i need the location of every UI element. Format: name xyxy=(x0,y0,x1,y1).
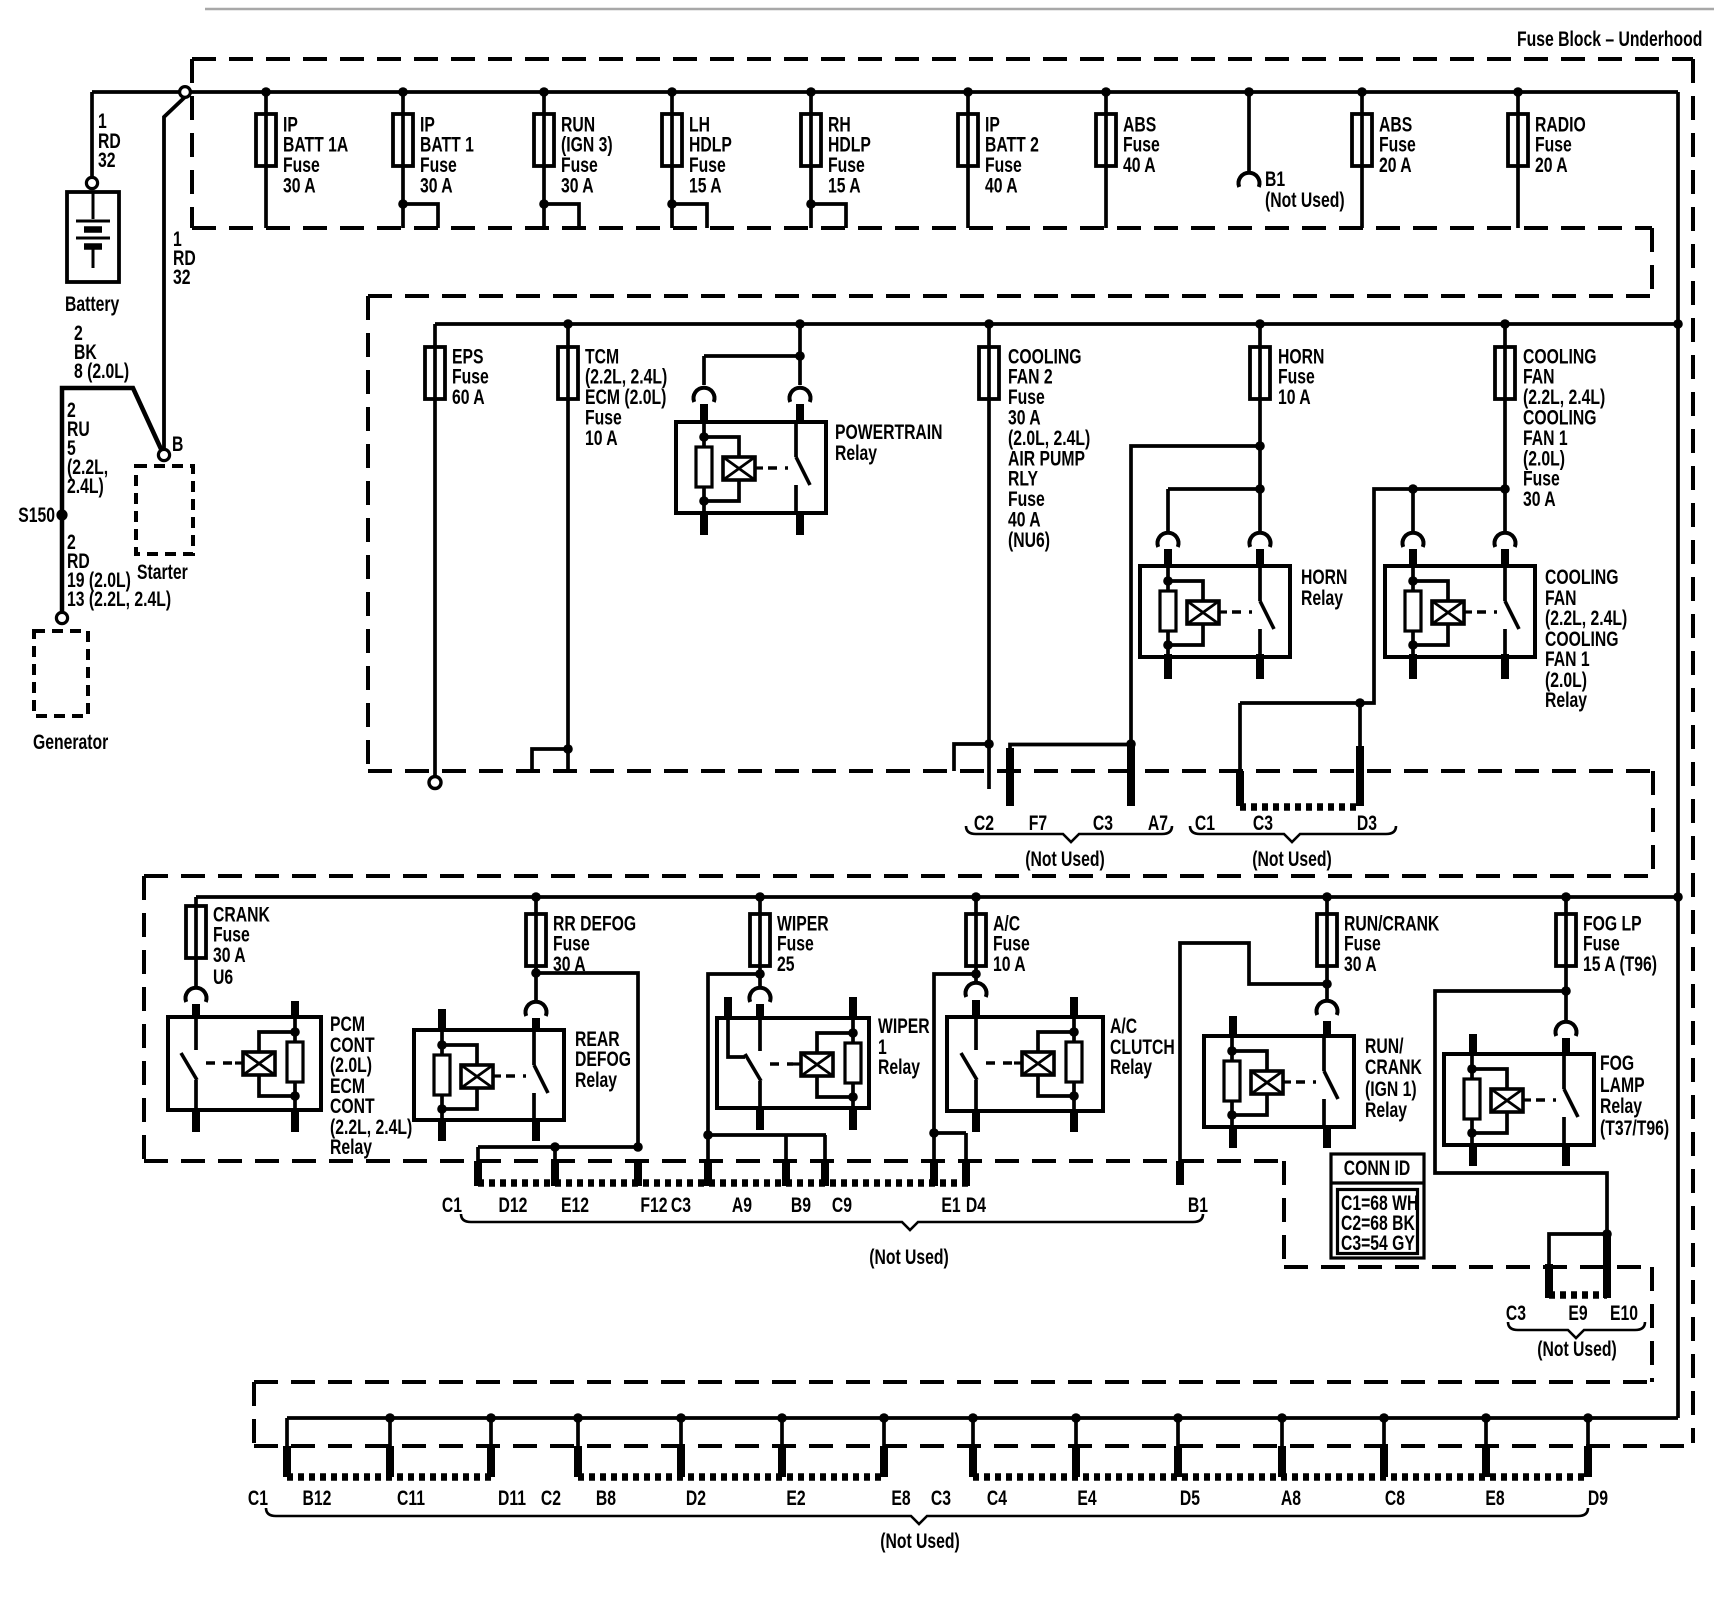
bottom terminal stub 9 xyxy=(1074,1418,1078,1448)
fuse A/C 10 A wire xyxy=(974,897,978,981)
rear defog relay mechanical link (dashed) xyxy=(506,1074,526,1078)
powertrain relay coil branch wire xyxy=(704,356,800,385)
fuse IP BATT 2 40 A xyxy=(958,114,978,166)
fuse IP BATT 1 30 A xyxy=(393,114,413,166)
horn relay coil pin connector arc xyxy=(1158,533,1179,547)
fuse EPS 60 A wire xyxy=(433,324,437,776)
starter B terminal circle xyxy=(158,449,169,460)
cooling fan relay coil xyxy=(1432,601,1464,624)
fog lp fuse output wire to terminals E9/E10 xyxy=(1435,991,1607,1234)
svg-text:C3=54 GY: C3=54 GY xyxy=(1341,1231,1415,1255)
brace for C2 F7 C3 A7 group xyxy=(966,826,1172,842)
cooling fan relay coil/resistor top junction xyxy=(1408,576,1418,586)
horn relay coil/resistor bottom junction xyxy=(1163,640,1173,650)
fuse block dashed border: box2 left edge xyxy=(366,296,370,771)
fuse HORN 10 A wire xyxy=(1258,324,1262,532)
svg-text:Relay: Relay xyxy=(330,1135,373,1159)
fuse COOLING FAN 2 second terminal stub xyxy=(954,744,989,771)
svg-text:60 A: 60 A xyxy=(452,385,485,409)
not used dotted strip E9-E10 xyxy=(1549,1291,1607,1299)
terminal C3 stub (cooling fan group) xyxy=(1238,703,1242,771)
terminal A7 stub xyxy=(1127,746,1135,806)
fog lamp relay resistor lower wire xyxy=(1470,1119,1474,1145)
bottom terminal stub 6 xyxy=(780,1418,784,1448)
fuse block dashed border: box3 top edge xyxy=(144,874,1653,878)
fuse FOG LP 15 A wire xyxy=(1564,897,1568,1020)
run/crank fuse output wire to terminal B1 xyxy=(1180,943,1327,1162)
cooling fan relay pins xyxy=(1409,549,1417,568)
fuse ABS 40 A wire xyxy=(1104,92,1108,228)
svg-text:D3: D3 xyxy=(1357,811,1377,835)
fuse block dashed border: box1 left edge xyxy=(190,59,194,228)
svg-text:30 A: 30 A xyxy=(1523,487,1556,511)
bottom terminal stub 4 xyxy=(576,1418,580,1448)
fuse block dashed border: outer right edge xyxy=(1691,59,1695,1443)
fuse block dashed border: box2 top edge xyxy=(368,294,1652,298)
fuse ABS 20 A xyxy=(1352,114,1372,166)
bottom terminal stub 7 xyxy=(882,1418,886,1448)
svg-text:B8: B8 xyxy=(596,1486,616,1510)
svg-text:10 A: 10 A xyxy=(993,952,1026,976)
fog lamp relay mechanical link (dashed) xyxy=(1536,1098,1556,1102)
fuse COOLING FAN 2 / AIR PUMP RLY 30A/40A xyxy=(979,347,999,399)
run/crank relay switch xyxy=(1322,1038,1326,1071)
svg-text:C1: C1 xyxy=(442,1193,462,1217)
fuse RUN (IGN 3) second terminal stub xyxy=(544,204,579,228)
svg-text:E12: E12 xyxy=(561,1193,589,1217)
cooling fan relay coil pin wire xyxy=(1411,568,1415,591)
fog lamp relay coil/resistor top junction xyxy=(1467,1064,1477,1074)
horn relay coil pin wire xyxy=(1166,568,1170,591)
svg-text:CRANK: CRANK xyxy=(1365,1055,1422,1079)
bottom terminal stub 5 xyxy=(679,1418,683,1448)
powertrain relay coil pin connector arc xyxy=(694,388,715,402)
fuse COOLING FAN 2 / AIR PUMP RLY wire xyxy=(987,324,991,789)
cooling fan relay coil/resistor bottom junction xyxy=(1408,640,1418,650)
rear defog relay switch xyxy=(532,1032,536,1065)
svg-text:C8: C8 xyxy=(1385,1486,1405,1510)
brace for section 3 terminal group xyxy=(461,1214,1203,1230)
fog lamp relay coil parallel wiring xyxy=(1472,1069,1507,1089)
svg-text:C1: C1 xyxy=(248,1486,268,1510)
svg-text:40 A: 40 A xyxy=(1123,153,1156,177)
fuse HORN 10 A xyxy=(1250,347,1270,399)
svg-text:Battery: Battery xyxy=(65,292,120,316)
svg-text:D2: D2 xyxy=(686,1486,706,1510)
run/crank relay coil/resistor bottom junction xyxy=(1227,1110,1237,1120)
svg-text:10 A: 10 A xyxy=(585,426,618,450)
svg-text:C3: C3 xyxy=(1253,811,1273,835)
bus wire: battery feed to underhood fuses xyxy=(92,90,1678,94)
fuse block dashed border: box2-box3 right step xyxy=(1651,771,1655,876)
fuse TCM/ECM 10 A xyxy=(558,347,578,399)
fog lamp relay coil/resistor bottom junction xyxy=(1467,1128,1477,1138)
not used dotted strip D12-D4 xyxy=(478,1179,968,1187)
pcm cont relay resistor xyxy=(293,1019,297,1042)
cooling fan relay mechanical link (dashed) xyxy=(1477,610,1497,614)
relay REAR DEFOG xyxy=(414,1030,564,1120)
bottom terminal stub 1 xyxy=(285,1418,289,1448)
a/c clutch relay coil/resistor junctions xyxy=(1069,1027,1079,1037)
cooling fan relay resistor xyxy=(1405,591,1421,631)
fuse RADIO 20 A wire xyxy=(1516,92,1520,228)
a/c clutch relay switch pin connector arc xyxy=(965,983,986,997)
fuse RUN/CRANK 30 A wire xyxy=(1325,897,1329,999)
rear defog relay resistor lower wire xyxy=(440,1095,444,1120)
svg-text:10 A: 10 A xyxy=(1278,385,1311,409)
fuse TCM second terminal stub xyxy=(532,749,568,771)
svg-text:B1: B1 xyxy=(1188,1193,1208,1217)
svg-text:C3: C3 xyxy=(1093,811,1113,835)
terminal B9 stub xyxy=(784,1135,788,1162)
terminal F7 stub xyxy=(1010,745,1131,757)
powertrain relay switch xyxy=(794,424,798,457)
fuse RADIO 20 A xyxy=(1508,114,1528,166)
svg-text:B12: B12 xyxy=(303,1486,332,1510)
svg-text:(Not Used): (Not Used) xyxy=(1025,847,1105,871)
powertrain relay resistor xyxy=(696,447,712,487)
cooling fan relay switch xyxy=(1503,568,1507,601)
fuse IP BATT 2 40 A wire xyxy=(966,92,970,228)
svg-text:Relay: Relay xyxy=(1365,1098,1408,1122)
run/crank relay coil xyxy=(1251,1071,1283,1094)
a/c clutch relay coil parallel wiring xyxy=(1038,1032,1074,1052)
pcm cont relay coil parallel wiring xyxy=(259,1032,295,1052)
svg-text:13 (2.2L, 2.4L): 13 (2.2L, 2.4L) xyxy=(67,587,171,611)
svg-text:(T37/T96): (T37/T96) xyxy=(1600,1116,1669,1140)
wiper relay switch pin connector arc xyxy=(750,988,771,1002)
horn relay mechanical link (dashed) xyxy=(1232,610,1252,614)
fuse IP BATT 1 second terminal stub xyxy=(403,204,438,228)
rear defog relay coil pin wire xyxy=(440,1032,444,1055)
bus wire: section 3 feed xyxy=(196,895,1678,899)
relay RUN/CRANK (IGN 1) xyxy=(1204,1036,1354,1127)
wiper relay switch feed from stub pin xyxy=(728,1020,745,1057)
svg-text:15 A (T96): 15 A (T96) xyxy=(1583,952,1657,976)
svg-text:F7: F7 xyxy=(1029,811,1047,835)
bottom terminal stub 10 xyxy=(1176,1418,1180,1448)
fuse FOG LP 15 A xyxy=(1556,914,1576,966)
svg-text:E2: E2 xyxy=(786,1486,805,1510)
svg-text:C4: C4 xyxy=(987,1486,1008,1510)
rr defog fuse output wire to terminals xyxy=(478,973,638,1147)
cooling fan relay coil parallel wiring xyxy=(1413,581,1448,601)
svg-text:30 A: 30 A xyxy=(283,173,316,197)
svg-text:C9: C9 xyxy=(832,1193,852,1217)
svg-text:A7: A7 xyxy=(1148,811,1168,835)
horn relay switch xyxy=(1258,568,1262,601)
not used dotted strip C3-D3 xyxy=(1240,803,1360,811)
pcm relay switch pin connector arc xyxy=(186,988,207,1002)
svg-text:D12: D12 xyxy=(499,1193,528,1217)
svg-text:D5: D5 xyxy=(1180,1486,1200,1510)
terminal F12 stub xyxy=(634,1161,642,1186)
generator terminal circle xyxy=(56,612,67,623)
svg-text:E9: E9 xyxy=(1568,1301,1587,1325)
run/crank relay pins xyxy=(1229,1016,1237,1038)
not used dotted strip (bottom middle group) xyxy=(578,1473,884,1481)
svg-text:D9: D9 xyxy=(1588,1486,1608,1510)
horn relay resistor lower wire xyxy=(1166,631,1170,657)
fuse A/C 10 A xyxy=(966,914,986,966)
svg-text:2.4L): 2.4L) xyxy=(67,474,104,498)
powertrain relay feed wire from bus xyxy=(798,324,802,385)
svg-text:Fuse Block – Underhood: Fuse Block – Underhood xyxy=(1517,27,1702,51)
fuse LH HDLP 15 A wire xyxy=(670,92,674,228)
fuse RUN (IGN 3) 30 A xyxy=(534,114,554,166)
svg-text:(NU6): (NU6) xyxy=(1008,528,1050,552)
cooling fan relay coil branch wire xyxy=(1240,489,1505,703)
brace for E9 E10 group xyxy=(1508,1322,1645,1338)
a/c clutch relay coil xyxy=(1014,1061,1022,1064)
starter (dashed box) xyxy=(136,466,193,554)
generator (dashed box) xyxy=(34,631,88,716)
rear defog relay resistor xyxy=(434,1055,450,1095)
svg-text:40 A: 40 A xyxy=(985,173,1018,197)
svg-text:32: 32 xyxy=(173,265,191,289)
svg-text:A9: A9 xyxy=(732,1193,752,1217)
relay FOG LAMP xyxy=(1444,1054,1594,1145)
svg-text:32: 32 xyxy=(98,148,116,172)
svg-text:C3: C3 xyxy=(671,1193,691,1217)
cooling fan relay coil pin connector arc xyxy=(1403,533,1424,547)
svg-text:Relay: Relay xyxy=(1545,688,1588,712)
svg-text:E1: E1 xyxy=(941,1193,960,1217)
fuse WIPER 25 wire xyxy=(758,897,762,986)
fuse RH HDLP 15 A wire xyxy=(809,92,813,228)
svg-text:30 A: 30 A xyxy=(561,173,594,197)
terminal circle below EPS wire xyxy=(429,777,441,789)
horn relay resistor xyxy=(1160,591,1176,631)
wiper fuse output wire to terminals xyxy=(708,974,826,1135)
not used dotted strip (bottom right group) xyxy=(973,1473,1588,1481)
horn relay switch pin connector arc xyxy=(1250,533,1271,547)
svg-text:D4: D4 xyxy=(966,1193,987,1217)
powertrain relay mechanical link (dashed) xyxy=(768,466,788,470)
terminal B1 stub xyxy=(1176,1161,1184,1185)
svg-text:C11: C11 xyxy=(397,1486,425,1510)
wiper 1 relay switch xyxy=(758,1020,762,1051)
fog lamp relay resistor xyxy=(1464,1079,1480,1119)
horn relay coil xyxy=(1187,601,1219,624)
bus wire: bottom terminal strip xyxy=(287,1416,1678,1420)
bottom terminal stub 2 xyxy=(388,1418,392,1448)
air pump rly feed wire to terminals F7/A7 xyxy=(1131,446,1260,744)
scan artifact line at top xyxy=(205,8,1714,11)
rear defog relay pins xyxy=(438,1009,446,1032)
battery xyxy=(67,192,119,282)
CONN ID box xyxy=(1331,1154,1424,1258)
run/crank relay coil pin wire xyxy=(1230,1038,1234,1061)
bottom terminal stub 11 xyxy=(1280,1418,1284,1448)
wiper 1 relay coil xyxy=(793,1062,801,1065)
svg-text:C3: C3 xyxy=(931,1486,951,1510)
svg-text:Relay: Relay xyxy=(1301,586,1344,610)
svg-text:30 A: 30 A xyxy=(420,173,453,197)
rear defog relay coil/resistor top junction xyxy=(437,1040,447,1050)
run/crank relay mechanical link (dashed) xyxy=(1296,1080,1316,1084)
run/crank relay resistor xyxy=(1224,1061,1240,1101)
svg-text:U6: U6 xyxy=(213,965,233,989)
rear defog relay coil parallel wiring xyxy=(442,1045,477,1065)
fuse block dashed border: box1 bottom edge xyxy=(192,226,1652,230)
run/crank relay coil/resistor top junction xyxy=(1227,1046,1237,1056)
svg-text:Relay: Relay xyxy=(1600,1094,1643,1118)
relay WIPER 1 xyxy=(717,1018,869,1108)
terminal B1 connector arc xyxy=(1239,173,1260,187)
terminal A9 stub xyxy=(706,1135,710,1162)
fuse IP BATT 1A 30 A xyxy=(256,114,276,166)
svg-text:C1: C1 xyxy=(1195,811,1215,835)
bottom terminal stub 3 xyxy=(489,1418,493,1448)
fuse block dashed border: box1 top edge xyxy=(192,57,1693,61)
fog lamp relay pins xyxy=(1469,1034,1477,1056)
svg-text:20 A: 20 A xyxy=(1379,153,1412,177)
svg-text:(Not Used): (Not Used) xyxy=(1537,1337,1617,1361)
bottom terminal stub 14 xyxy=(1586,1418,1590,1448)
terminal B1 stub wire xyxy=(1247,92,1251,171)
bottom terminal stub 13 xyxy=(1484,1418,1488,1448)
svg-text:25: 25 xyxy=(777,952,795,976)
fuse LH HDLP 15 A xyxy=(662,114,682,166)
svg-text:A8: A8 xyxy=(1281,1486,1301,1510)
svg-text:(Not Used): (Not Used) xyxy=(880,1529,960,1553)
powertrain relay coil/resistor top junction xyxy=(699,432,709,442)
fog lamp relay coil xyxy=(1491,1089,1523,1112)
pcm relay pins xyxy=(192,1004,200,1019)
terminal E9 stub xyxy=(1549,1234,1607,1266)
relay A/C CLUTCH xyxy=(947,1017,1103,1111)
horn relay pins xyxy=(1164,549,1172,568)
fuse block dashed border: box2 bottom edge xyxy=(368,769,1653,773)
a/c fuse output wire to terminals xyxy=(934,974,976,1133)
a/c clutch relay resistor xyxy=(1072,1019,1076,1042)
svg-text:30 A: 30 A xyxy=(213,943,246,967)
svg-text:(Not Used): (Not Used) xyxy=(869,1245,949,1269)
fog lamp relay coil pin wire xyxy=(1470,1056,1474,1079)
terminal D12 stub xyxy=(476,1147,480,1162)
horn relay coil/resistor top junction xyxy=(1163,576,1173,586)
svg-text:(Not Used): (Not Used) xyxy=(1265,188,1345,212)
bottom terminal stub 12 xyxy=(1382,1418,1386,1448)
powertrain relay coil parallel wiring xyxy=(704,437,739,457)
svg-text:E8: E8 xyxy=(1485,1486,1504,1510)
pcm cont relay switch xyxy=(194,1019,198,1050)
fuse block dashed border: box3 left edge xyxy=(142,876,146,1161)
fuse block dashed border: bottom box through line xyxy=(254,1444,1693,1448)
fuse block dashed border: step to bottom box xyxy=(1650,1267,1654,1382)
a/c clutch relay switch xyxy=(974,1019,978,1050)
fog lamp relay switch pin connector arc xyxy=(1556,1022,1577,1036)
fuse WIPER 25 xyxy=(750,914,770,966)
fuse block dashed border: bottom box top edge xyxy=(254,1380,1652,1384)
fuse CRANK 30 A xyxy=(186,906,206,958)
run/crank relay resistor lower wire xyxy=(1230,1101,1234,1127)
brace for bottom terminal group xyxy=(266,1508,1588,1524)
fuse COOLING FAN 30 A xyxy=(1495,347,1515,399)
svg-text:F12: F12 xyxy=(640,1193,667,1217)
terminal D4 stub xyxy=(964,1133,968,1162)
svg-text:B: B xyxy=(172,432,183,456)
bus wire: section 2 feed xyxy=(435,322,1678,326)
svg-text:FOG: FOG xyxy=(1600,1051,1634,1075)
svg-text:E4: E4 xyxy=(1077,1486,1097,1510)
fuse IP BATT 1A 30 A wire xyxy=(264,92,268,228)
a/c clutch relay mechanical link (dashed) xyxy=(986,1061,1014,1065)
fuse LH HDLP second terminal stub xyxy=(672,204,707,228)
svg-text:15 A: 15 A xyxy=(828,173,861,197)
fuse block dashed border: box1-box2 right step xyxy=(1650,228,1654,296)
bus junction circle (battery tap) xyxy=(180,87,191,98)
svg-text:8 (2.0L): 8 (2.0L) xyxy=(74,359,129,383)
wire 1 RD 32 from bus junction to starter B terminal xyxy=(164,97,185,449)
svg-text:20 A: 20 A xyxy=(1535,153,1568,177)
fuse block dashed border: box3 lower bottom edge xyxy=(1284,1265,1652,1269)
wiper 1 relay coil/resistor junctions xyxy=(848,1028,858,1038)
svg-text:Generator: Generator xyxy=(33,730,108,754)
svg-text:(Not Used): (Not Used) xyxy=(1252,847,1332,871)
fuse block dashed border: box3 bottom step down xyxy=(1282,1161,1286,1267)
fuse ABS 20 A wire xyxy=(1360,92,1364,228)
wire generator to B junction xyxy=(62,388,161,612)
fuse block dashed border: box3 bottom edge xyxy=(144,1159,1284,1163)
terminal E10 stub xyxy=(1603,1234,1611,1298)
fuse RUN/CRANK 30 A xyxy=(1317,914,1337,966)
main right feed wire xyxy=(1676,92,1680,1418)
fuse EPS 60 A xyxy=(425,347,445,399)
horn relay coil parallel wiring xyxy=(1168,581,1203,601)
svg-text:Relay: Relay xyxy=(878,1055,921,1079)
fuse RH HDLP 15 A xyxy=(801,114,821,166)
fuse RR DEFOG 30 A wire xyxy=(534,897,538,1001)
wiper 1 relay resistor xyxy=(851,1020,855,1043)
svg-text:E8: E8 xyxy=(891,1486,910,1510)
svg-text:Starter: Starter xyxy=(137,560,188,584)
rear defog relay switch pin connector arc xyxy=(526,1002,547,1016)
a/c clutch relay pins xyxy=(972,1000,980,1019)
pcm cont relay coil xyxy=(235,1061,243,1064)
svg-text:Relay: Relay xyxy=(835,441,878,465)
fuse RH HDLP second terminal stub xyxy=(811,204,846,228)
powertrain relay switch pin connector arc xyxy=(790,388,811,402)
fuse RR DEFOG 30 A xyxy=(526,914,546,966)
battery positive terminal circle xyxy=(86,177,97,188)
powertrain relay resistor lower wire xyxy=(702,487,706,513)
cooling fan relay switch pin connector arc xyxy=(1495,533,1516,547)
pcm cont relay mechanical link (dashed) xyxy=(206,1061,235,1065)
node S150 xyxy=(56,509,67,520)
svg-text:D11: D11 xyxy=(498,1486,526,1510)
svg-text:30 A: 30 A xyxy=(1344,952,1377,976)
wiper relay pins xyxy=(724,997,732,1020)
svg-text:Relay: Relay xyxy=(575,1068,618,1092)
fuse CRANK 30 A wire xyxy=(194,897,198,986)
terminal D3 stub xyxy=(1355,698,1365,708)
powertrain relay coil pin wire xyxy=(702,424,706,447)
brace for C1 C3 D3 group xyxy=(1190,826,1396,842)
powertrain relay pins xyxy=(700,404,708,424)
powertrain relay coil xyxy=(723,457,755,480)
fuse COOLING FAN 30 A wire xyxy=(1503,324,1507,532)
fuse TCM/ECM 10 A wire xyxy=(566,324,570,771)
svg-text:C2: C2 xyxy=(541,1486,561,1510)
cooling fan relay resistor lower wire xyxy=(1411,631,1415,657)
powertrain relay coil/resistor bottom junction xyxy=(699,496,709,506)
terminal C9 stub xyxy=(823,1135,827,1162)
fog lamp relay switch xyxy=(1562,1056,1566,1089)
svg-text:CONN ID: CONN ID xyxy=(1344,1156,1410,1180)
fuse RUN (IGN 3) 30 A wire xyxy=(542,92,546,228)
